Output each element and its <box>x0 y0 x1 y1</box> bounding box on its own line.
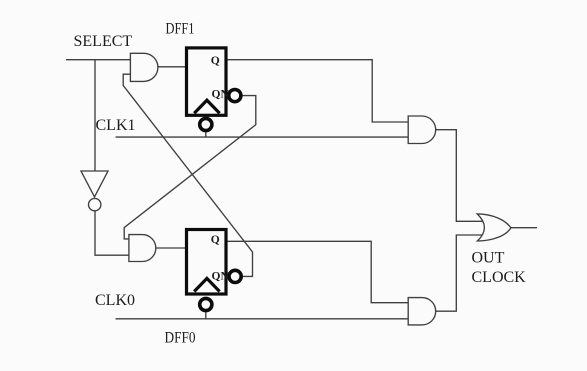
and-gate AND4 bottom-right <box>408 298 436 325</box>
flip-flop DFF1 clock bubble <box>200 118 212 130</box>
and-gate AND3 top-right <box>408 116 436 144</box>
svg-text:Q: Q <box>211 234 220 246</box>
wire inverter output to AND2 <box>95 211 129 255</box>
wire AND4 output to OR lower input <box>436 235 483 311</box>
svg-text:DFF1: DFF1 <box>166 21 195 38</box>
inverter bubble <box>89 198 101 210</box>
wire net Q0 to AND4 <box>228 241 409 302</box>
svg-text:CLK0: CLK0 <box>95 292 135 309</box>
and-gate AND2 bottom-left <box>129 235 156 262</box>
wire AND1 output to DFF1 D <box>158 66 185 68</box>
wire net QN0 cross-couple to AND1 <box>123 74 252 276</box>
flip-flop DFF1 QN bubble <box>229 90 241 102</box>
wire OUT CLOCK output <box>511 227 537 229</box>
svg-text:DFF0: DFF0 <box>165 330 196 347</box>
svg-text:SELECT: SELECT <box>74 33 133 50</box>
svg-text:CLOCK: CLOCK <box>472 269 527 286</box>
inverter triangle <box>81 171 108 197</box>
or-gate OR1 output stage <box>477 214 511 241</box>
flip-flop DFF0 clock edge triangle <box>194 278 219 291</box>
wire net Q1 to AND3 <box>228 60 409 122</box>
flip-flop DFF0 box <box>187 230 227 295</box>
and-gate AND1 top-left <box>130 53 158 81</box>
wire DFF0 clock stem <box>205 312 207 319</box>
wire AND3 output to OR upper input <box>436 130 483 222</box>
svg-text:QN: QN <box>212 89 230 101</box>
wire net QN1 cross-couple to AND2 <box>124 96 256 239</box>
flip-flop DFF0 clock bubble <box>200 298 212 310</box>
wire CLK1 <box>116 136 409 138</box>
svg-text:QN: QN <box>212 270 230 282</box>
wire SELECT to inverter <box>94 60 96 171</box>
flip-flop DFF0 QN bubble <box>229 270 241 282</box>
svg-text:Q: Q <box>211 55 220 67</box>
flip-flop DFF1 clock edge triangle <box>194 100 219 113</box>
wire AND2 output to DFF0 D <box>156 247 185 249</box>
svg-text:CLK1: CLK1 <box>96 117 136 134</box>
wire CLK0 <box>116 318 409 320</box>
wire DFF1 clock stem <box>205 131 207 137</box>
flip-flop DFF1 box <box>187 48 227 115</box>
svg-text:OUT: OUT <box>472 250 505 267</box>
wire SELECT input <box>66 59 130 61</box>
